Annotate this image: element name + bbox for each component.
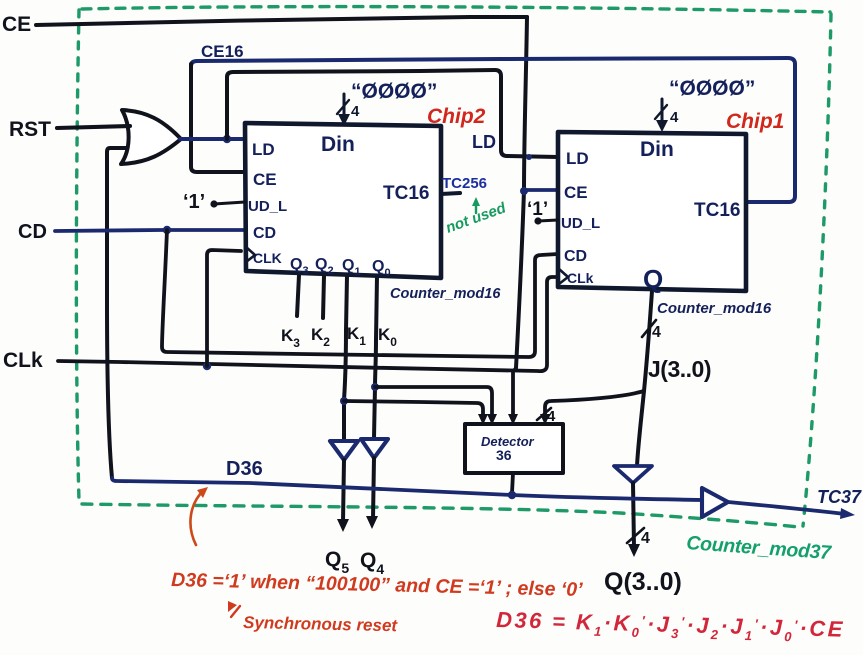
arrowhead K0 into detector	[487, 414, 497, 425]
dashed enclosure bottom edge	[82, 504, 799, 527]
svg-text:Din: Din	[640, 138, 674, 161]
svg-text:CLK: CLK	[253, 250, 282, 266]
wire detector output D36	[512, 473, 513, 493]
svg-text:“ØØØØ”: “ØØØØ”	[669, 77, 755, 100]
wire Q3 stub of Chip2	[297, 275, 299, 316]
node junction K1 branch	[340, 397, 348, 405]
wire D36 horizontal	[112, 478, 702, 500]
svg-text:CLk: CLk	[567, 270, 594, 286]
arrow not-used (green)	[475, 201, 477, 213]
svg-text:Q(3..0): Q(3..0)	[604, 568, 682, 596]
svg-text:CD: CD	[18, 221, 47, 243]
svg-text:4: 4	[351, 103, 360, 120]
component Detector36 box	[465, 424, 563, 473]
buffer B4 (TC37 driver)	[702, 488, 728, 517]
wire Q2 stub of Chip2	[323, 276, 324, 318]
svg-text:“ØØØØ”: “ØØØØ”	[351, 80, 437, 103]
svg-text:D36: D36	[226, 458, 263, 480]
svg-text:Counter_mod16: Counter_mod16	[390, 286, 501, 302]
wire D36 feedback riser into OR1 lower input	[107, 148, 126, 478]
svg-text:36: 36	[496, 447, 512, 463]
bus tick Q /4	[627, 528, 644, 543]
svg-text:‘1’: ‘1’	[527, 199, 548, 220]
svg-text:Chip1: Chip1	[726, 110, 784, 133]
node junction D36 at detector output	[508, 491, 516, 499]
wire LD riser up and over to Chip1	[227, 70, 558, 157]
wire CE branch arrow into Detector36	[513, 368, 516, 417]
svg-text:CE16: CE16	[201, 42, 244, 61]
arrowhead Q(3..0)	[628, 544, 640, 557]
svg-text:4: 4	[652, 324, 661, 341]
bus tick Din /4 (U2)	[337, 100, 349, 114]
wire K0 branch to detector	[375, 387, 492, 417]
node crossing blob LD x CE16	[188, 137, 193, 142]
wire CD riser down and across to Chip1 CD	[162, 230, 558, 357]
svg-text:RST: RST	[9, 118, 51, 141]
wire CE vertical drop to Chip1 CE	[516, 17, 527, 368]
wire Din arrow (U1)	[661, 99, 664, 124]
dashed enclosure top edge	[82, 7, 830, 12]
svg-text:UD_L: UD_L	[248, 198, 287, 215]
wire CD to Chip2 CD pin	[55, 230, 245, 231]
SECTION: chips	[183, 77, 784, 317]
wire '1' to UD_L pin (U1)	[538, 220, 558, 221]
arrow orange callout to D36 wire	[190, 490, 204, 545]
svg-text:Din: Din	[321, 133, 355, 156]
node junction K0 branch	[371, 383, 379, 391]
dashed enclosure left edge	[76, 10, 79, 501]
wire K1 branch to detector	[344, 401, 483, 417]
wire TC37 output	[728, 502, 845, 514]
wire K1 (Q1 of Chip2) down to buffer	[344, 276, 347, 440]
wire CLK branch to Chip2 CLK pin	[207, 250, 241, 366]
svg-text:J(3..0): J(3..0)	[648, 356, 711, 382]
wire RST to OR1	[57, 126, 130, 128]
svg-text:4: 4	[641, 530, 650, 547]
svg-text:CE: CE	[253, 170, 277, 189]
svg-text:TC16: TC16	[383, 183, 429, 204]
wire K0 (Q0 of Chip2) down to buffer	[374, 276, 377, 438]
svg-text:TC37: TC37	[817, 487, 862, 507]
wire J bus branch to detector	[545, 391, 644, 417]
svg-text:CE: CE	[564, 183, 588, 202]
svg-text:Synchronous reset: Synchronous reset	[243, 613, 399, 635]
node junction CLK	[203, 362, 211, 370]
arrowhead Din (U1)	[656, 120, 668, 132]
buffer B2 (Q4 driver)	[361, 439, 388, 458]
svg-text:Chip2: Chip2	[427, 105, 486, 128]
bus tick detector /4	[537, 408, 551, 420]
gate OR1 (RST + D36)	[121, 110, 181, 164]
wire J bus from Chip1 Q output	[637, 291, 652, 466]
svg-text:4: 4	[670, 109, 679, 126]
arrowhead Din (U2)	[338, 114, 350, 126]
svg-text:‘1’: ‘1’	[183, 191, 205, 213]
arrowhead K1 into detector	[478, 414, 488, 425]
wire Q(3..0) output	[633, 483, 634, 547]
chip U2 (Chip2 Counter_mod16) box	[245, 123, 441, 278]
SECTION: border	[76, 7, 831, 527]
wire CE16 top horizontal	[191, 58, 795, 66]
buffer B3 (Q bus driver)	[614, 466, 652, 483]
svg-text:LD: LD	[252, 140, 275, 159]
svg-text:Q: Q	[643, 264, 663, 294]
wire Din arrow (U2)	[343, 94, 346, 118]
wire CE stub into Chip1 CE pin	[524, 188, 558, 192]
arrowhead J bus into detector	[540, 414, 550, 425]
wire Q5 output	[343, 460, 344, 522]
svg-text:TC16: TC16	[694, 200, 740, 221]
pin CLK wedge (U1)	[559, 269, 568, 284]
wire CLK horizontal across to Chip1	[58, 277, 558, 371]
bus tick J /4	[642, 320, 656, 337]
svg-text:CE: CE	[2, 13, 31, 36]
arrowhead TC37	[840, 508, 855, 519]
wire CE16 right vertical to TC16 of Chip1	[746, 64, 795, 202]
wire '1' to UD_L pin (U2)	[214, 202, 245, 204]
dashed enclosure right edge	[803, 14, 831, 526]
arrowhead Q4	[366, 516, 378, 529]
node terminal dot '1' (U2)	[210, 200, 217, 207]
wire LD net: OR1 output to Chip2 LD pin	[180, 137, 245, 141]
arrowhead CE into detector	[508, 414, 518, 425]
wire Q4 output	[373, 458, 374, 519]
chip U1 (Chip1 Counter_mod16) box	[558, 132, 746, 291]
node junction CE at Chip1	[520, 187, 528, 195]
svg-text:TC256: TC256	[442, 175, 487, 192]
arrowhead Q5	[337, 519, 349, 532]
wire TC16 stub (U2)	[441, 193, 460, 194]
bus tick Din /4 (U1)	[655, 105, 667, 119]
svg-text:LD: LD	[472, 132, 496, 152]
svg-text:CLk: CLk	[3, 349, 43, 372]
arrow synchronous-reset pointer (red)	[231, 606, 240, 617]
svg-text:LD: LD	[566, 149, 589, 168]
wire CE horizontal top	[36, 17, 527, 25]
svg-text:UD_L: UD_L	[561, 215, 600, 232]
pin CLK wedge (U2)	[246, 247, 255, 262]
node junction CD	[163, 226, 171, 234]
svg-text:CD: CD	[564, 248, 587, 265]
wire CE16 left vertical to Chip2 CE pin	[191, 64, 245, 172]
node junction LD	[223, 135, 231, 143]
SECTION: annotations	[171, 487, 845, 646]
buffer B1 (Q5 driver)	[330, 441, 358, 460]
node terminal dot '1' (U1)	[534, 217, 541, 224]
svg-text:CD: CD	[253, 225, 276, 242]
svg-text:Counter_mod16: Counter_mod16	[657, 300, 772, 317]
node crossing blob LD stub x CE vertical	[526, 154, 532, 160]
